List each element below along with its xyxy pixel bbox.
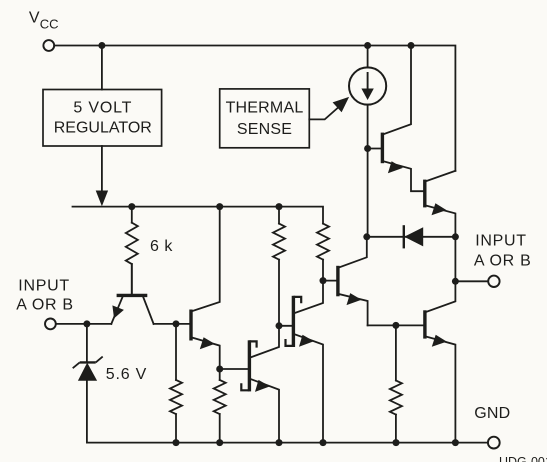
svg-text:SENSE: SENSE [237, 121, 292, 138]
svg-text:5 VOLT: 5 VOLT [73, 99, 132, 116]
svg-text:5.6 V: 5.6 V [106, 366, 147, 383]
svg-text:GND: GND [474, 405, 510, 422]
svg-text:V: V [29, 10, 40, 27]
svg-text:THERMAL: THERMAL [226, 99, 304, 116]
svg-text:INPUT: INPUT [18, 277, 70, 294]
svg-text:REGULATOR: REGULATOR [54, 120, 152, 137]
svg-text:A OR B: A OR B [474, 253, 532, 270]
svg-text:A OR B: A OR B [16, 297, 74, 314]
svg-text:UDG-00155: UDG-00155 [499, 455, 547, 462]
svg-text:INPUT: INPUT [475, 232, 527, 249]
svg-text:CC: CC [40, 16, 59, 31]
svg-text:6 k: 6 k [150, 238, 173, 255]
